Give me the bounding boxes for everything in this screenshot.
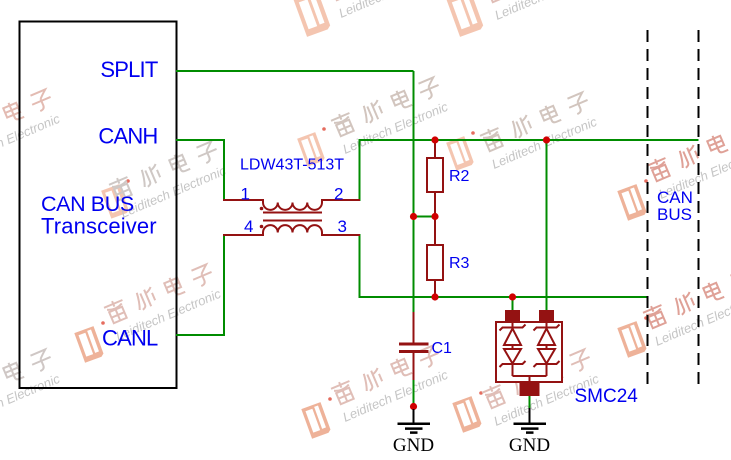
junction CANL/R3 [431,293,438,300]
watermark center-right (above R2) [446,89,599,172]
svg-text:LDW43T-513T: LDW43T-513T [240,157,344,174]
watermark left-edge bottom [0,346,62,448]
svg-text:Leiditech Electronic: Leiditech Electronic [336,0,446,21]
svg-text:Leiditech Electronic: Leiditech Electronic [340,367,450,425]
wire C1 bottom to ground [413,380,415,406]
watermark right-edge lower [617,266,731,358]
svg-text:2: 2 [334,185,343,204]
resistor R2 [427,141,443,217]
junction CANH/R2 [431,136,438,143]
wire SPLIT horizontal [176,70,414,72]
label CAN BUS (right) [657,188,693,224]
watermark top-center [294,0,447,37]
watermark mid-left (inside box) [101,138,228,221]
svg-text:C1: C1 [432,340,453,357]
wire CANH main [360,140,699,201]
wire R2-R3 midpoint link [414,216,436,218]
svg-text:GND: GND [509,435,550,456]
dashed bus line left [647,30,649,385]
watermark bottom-left [74,261,223,363]
junction CANL/SMC24 [509,293,516,300]
svg-text:GND: GND [393,435,434,456]
wire CANH to SMC24 right pin [546,140,548,310]
svg-text:R3: R3 [449,255,470,272]
svg-text:1: 1 [241,185,250,204]
junction SPLIT/midlink [410,213,417,220]
TVS diode array D1 SMC24 [496,310,562,396]
svg-text:3: 3 [338,217,347,236]
watermark bottom-right of C1 [452,346,601,433]
watermark bottom-center [301,342,450,439]
wire CANL to SMC24 left pin [512,297,514,310]
junction CANH/SMC24 [543,136,550,143]
watermark top-right [447,0,603,37]
svg-text:CANH: CANH [98,124,157,149]
ground symbol GND (C1) [398,409,431,433]
common-mode choke L1 LDW43T-513T [223,200,360,235]
svg-text:Leiditech Electronic: Leiditech Electronic [340,99,450,157]
watermark right-edge upper [617,119,731,221]
wire CANH stub from box [176,140,224,199]
svg-text:CANL: CANL [102,326,158,351]
svg-text:SPLIT: SPLIT [100,57,157,82]
watermark left-edge upper [0,86,62,187]
junction midlink/R2R3 [431,213,438,220]
junction dots [410,136,550,410]
label CAN BUS Transceiver [41,192,157,239]
junction C1/GND [410,403,417,410]
transceiver box U1 background [20,22,177,389]
svg-text:Transceiver: Transceiver [41,214,157,239]
wire CANL stub from box [176,236,224,335]
svg-text:4: 4 [244,217,253,236]
svg-text:CAN BUS: CAN BUS [41,192,134,216]
capacitor C1 [399,312,429,380]
wire SMC24 to ground [529,396,531,408]
dashed bus line right [698,30,700,385]
resistor R3 [427,217,443,298]
transceiver box U1 outline [20,22,177,389]
svg-text:R2: R2 [449,168,470,185]
wire SPLIT vertical to C1 [413,71,415,312]
svg-text:SMC24: SMC24 [575,386,639,407]
watermark center (above choke) [297,74,450,167]
svg-text:Leiditech Electronic: Leiditech Electronic [492,0,602,23]
wire CANL main [360,234,649,297]
ground symbol GND (SMC24) [514,408,547,433]
svg-text:BUS: BUS [657,205,692,224]
